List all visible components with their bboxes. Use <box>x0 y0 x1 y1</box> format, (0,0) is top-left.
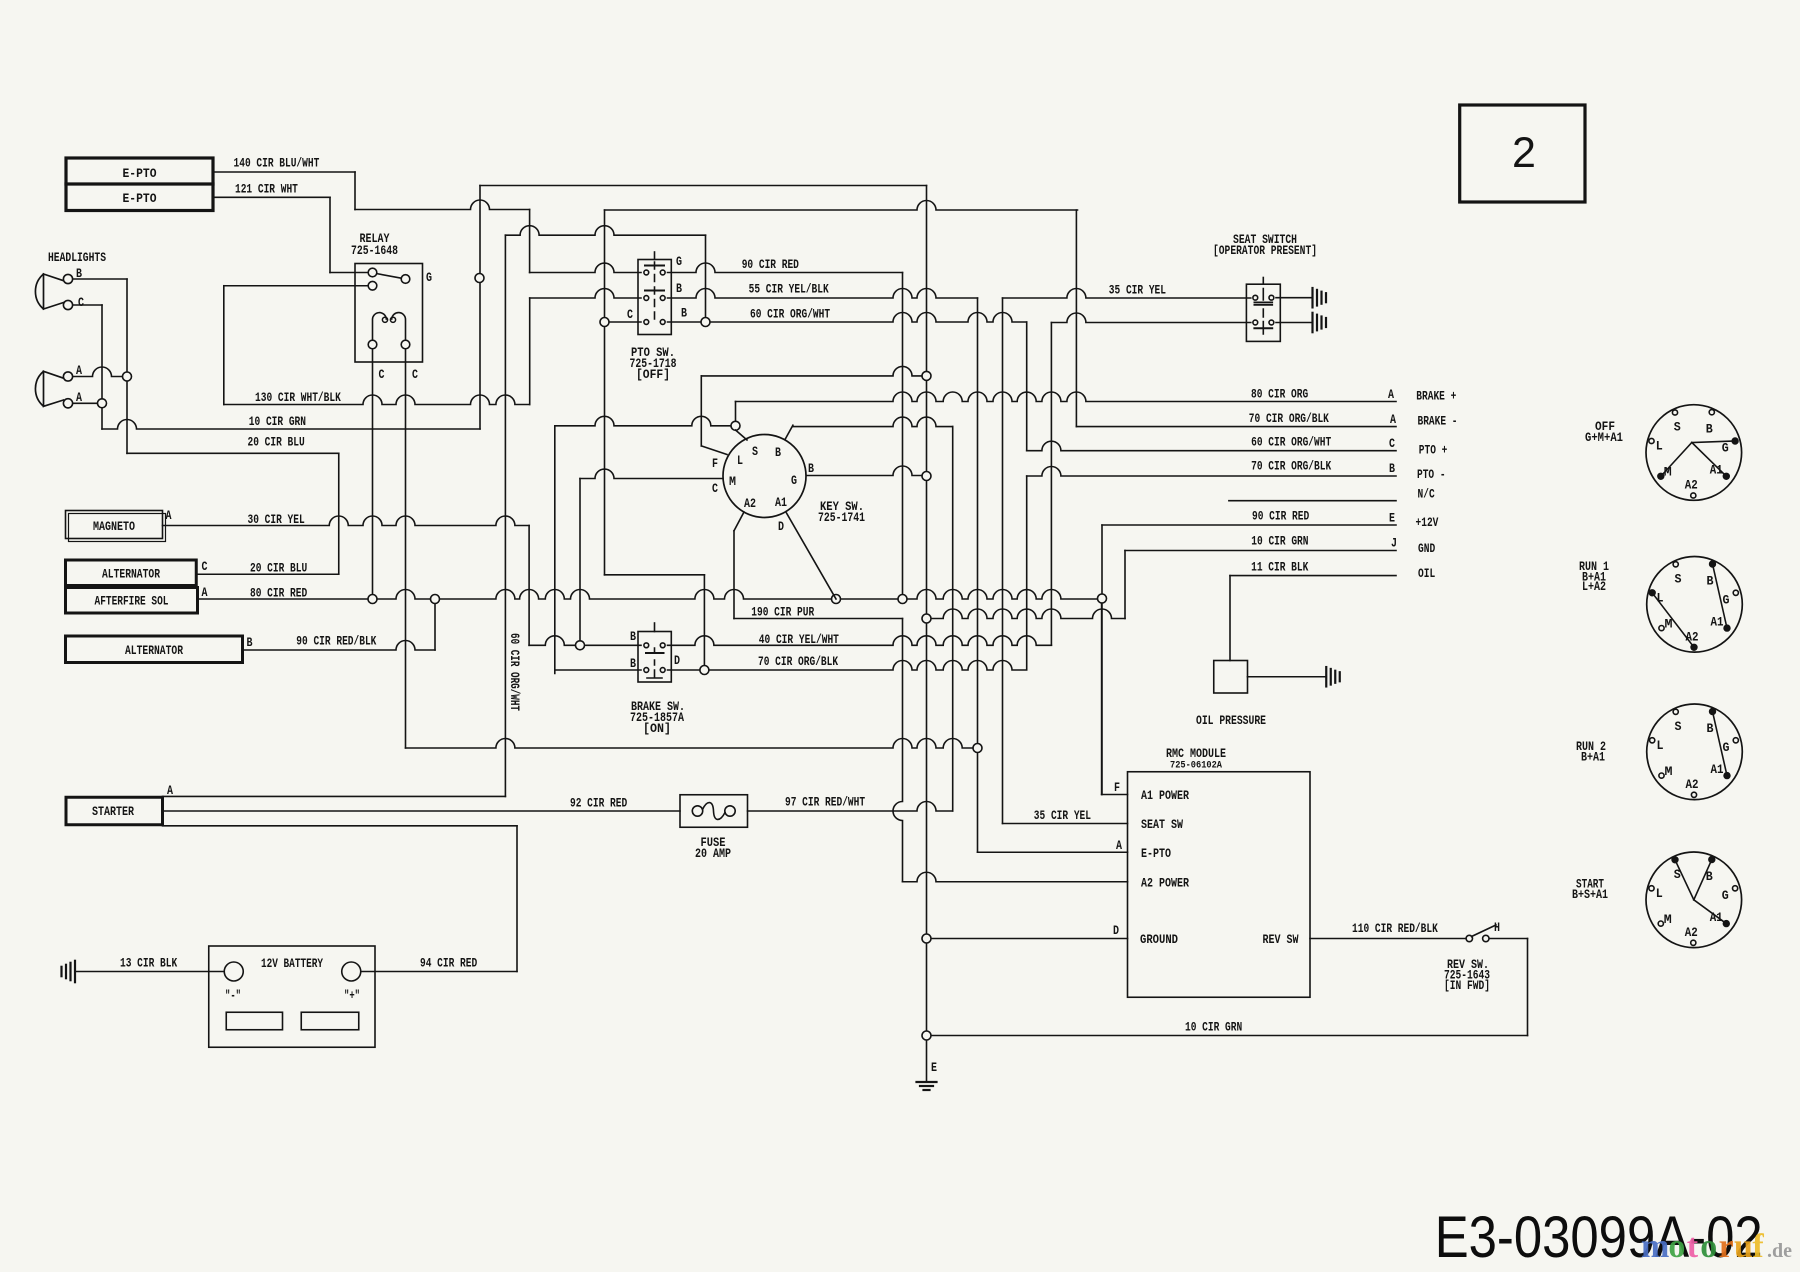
node F-net ground bus <box>922 371 931 380</box>
svg-text:G: G <box>1722 889 1729 903</box>
svg-text:60 CIR ORG/WHT: 60 CIR ORG/WHT <box>1251 436 1331 450</box>
wire 10 CIR GRN headlight <box>102 420 480 430</box>
svg-text:G: G <box>1722 442 1729 456</box>
svg-text:MAGNETO: MAGNETO <box>93 520 135 534</box>
svg-text:40 CIR YEL/WHT: 40 CIR YEL/WHT <box>759 633 839 647</box>
svg-text:ALTERNATOR: ALTERNATOR <box>102 568 160 582</box>
svg-text:BRAKE +: BRAKE + <box>1416 390 1456 404</box>
oil pressure switch <box>1214 661 1248 694</box>
wire 130 CIR WHT/BLK <box>224 395 530 405</box>
afterfire sol box <box>66 588 198 614</box>
ignition position START <box>1646 852 1742 948</box>
battery 12V <box>209 946 375 1047</box>
RMC module box <box>1128 772 1311 998</box>
node GROUND pin bus <box>922 934 931 943</box>
wire A1 POWER pin <box>1102 794 1128 796</box>
magneto box <box>66 511 163 539</box>
svg-text:[OFF]: [OFF] <box>636 368 670 382</box>
svg-text:.de: .de <box>1767 1240 1792 1262</box>
relay 725-1648 <box>355 264 423 363</box>
wire 60 CIR ORG/WHT PTO+ row <box>1026 322 1028 451</box>
svg-text:M: M <box>729 475 736 489</box>
wire PTO row B / 55 CIR YEL/BLK <box>530 289 641 298</box>
node key G ground bus <box>922 472 931 481</box>
wire 35 CIR YEL to seat switch <box>1003 289 1251 299</box>
svg-text:A2: A2 <box>1686 630 1699 644</box>
svg-text:A: A <box>1390 413 1396 427</box>
node headlight B/A <box>123 372 132 381</box>
node 80RED 12V riser <box>1098 594 1107 603</box>
svg-text:REV SW: REV SW <box>1263 933 1299 947</box>
wire key B to 70 CIR ORG/BLK BRAKE- row <box>793 417 953 426</box>
svg-text:C: C <box>202 560 208 574</box>
svg-text:A2 POWER: A2 POWER <box>1141 877 1189 891</box>
svg-text:L: L <box>1656 440 1663 454</box>
wire 20 CIR BLU to alternator <box>196 573 339 575</box>
svg-text:J: J <box>1391 537 1397 551</box>
ignition position OFF <box>1646 405 1742 501</box>
svg-text:D: D <box>778 520 784 534</box>
svg-text:A1: A1 <box>1711 615 1724 629</box>
svg-text:B: B <box>1707 574 1714 588</box>
node relay coil E-PTO net <box>973 744 982 753</box>
relay coil <box>372 313 386 341</box>
svg-text:BRAKE -: BRAKE - <box>1418 415 1458 429</box>
svg-text:B: B <box>681 307 687 321</box>
wire rev sw to bottom return <box>1489 938 1528 940</box>
svg-text:o: o <box>1668 1228 1685 1265</box>
ignition position RUN 2 <box>1647 704 1743 800</box>
svg-text:725-06102A: 725-06102A <box>1170 760 1223 772</box>
wire key C line <box>555 416 736 426</box>
node 80RED 90RED join <box>898 595 907 604</box>
wire 90 CIR RED/BLK from alternator <box>243 641 436 651</box>
wire relay coil to E-PTO net y=748 <box>406 739 978 749</box>
svg-text:70 CIR ORG/BLK: 70 CIR ORG/BLK <box>1249 412 1329 426</box>
svg-text:80 CIR RED: 80 CIR RED <box>250 587 308 601</box>
wire headlight A2 <box>73 402 103 404</box>
svg-text:E: E <box>931 1061 937 1075</box>
alternator box 1 <box>66 560 197 586</box>
svg-text:B+S+A1: B+S+A1 <box>1572 888 1608 902</box>
node 40line M join <box>576 641 585 650</box>
svg-text:PTO +: PTO + <box>1419 444 1448 458</box>
svg-text:A: A <box>167 784 173 798</box>
svg-text:M: M <box>1664 913 1672 927</box>
wire 10 CIR GRN GND row <box>1125 550 1396 552</box>
svg-text:SEAT SW: SEAT SW <box>1141 818 1183 832</box>
wire 90 CIR RED +12V row <box>1102 524 1396 526</box>
svg-text:20 AMP: 20 AMP <box>695 847 731 861</box>
svg-text:F: F <box>1114 781 1120 795</box>
svg-text:C: C <box>412 368 418 382</box>
svg-text:r: r <box>1719 1228 1734 1265</box>
svg-text:[OPERATOR PRESENT]: [OPERATOR PRESENT] <box>1213 244 1317 258</box>
svg-text:f: f <box>1752 1228 1764 1265</box>
seat switch <box>1246 284 1280 341</box>
svg-text:L+A2: L+A2 <box>1582 580 1606 594</box>
wire headlight B <box>73 278 128 280</box>
svg-text:A: A <box>1388 388 1394 402</box>
wire 70 CIR ORG/BLK from brake sw <box>555 669 641 671</box>
svg-text:A1: A1 <box>775 496 787 510</box>
PTO switch 725-1718 <box>638 260 671 335</box>
wire 20 CIR BLU headlight <box>127 452 339 454</box>
svg-text:C: C <box>379 368 385 382</box>
wire 80 CIR RED main <box>198 590 1103 600</box>
svg-text:OIL: OIL <box>1418 567 1435 581</box>
svg-text:A1 POWER: A1 POWER <box>1141 789 1189 803</box>
ignition position RUN 1 <box>1647 557 1743 653</box>
svg-text:OIL PRESSURE: OIL PRESSURE <box>1196 714 1266 728</box>
wire top net y=210 east segment <box>605 201 1078 211</box>
svg-text:121 CIR WHT: 121 CIR WHT <box>235 183 298 197</box>
svg-text:[ON]: [ON] <box>643 722 671 736</box>
svg-text:70 CIR ORG/BLK: 70 CIR ORG/BLK <box>1251 460 1331 474</box>
wire 94 CIR RED battery link <box>163 825 518 827</box>
svg-text:A: A <box>166 509 172 523</box>
svg-text:2: 2 <box>1512 129 1536 177</box>
svg-text:m: m <box>1641 1228 1669 1265</box>
svg-text:90 CIR RED: 90 CIR RED <box>1252 510 1310 524</box>
svg-text:S: S <box>1675 572 1682 586</box>
wire 190PUR south to A2 POWER <box>893 619 903 882</box>
wire F-net horizontal y=376 <box>701 366 926 376</box>
wire A2 POWER pin <box>903 872 1128 882</box>
svg-text:725-1741: 725-1741 <box>818 511 865 525</box>
wire relay lower contact to 130 line <box>224 285 368 287</box>
svg-text:725-1648: 725-1648 <box>351 244 398 258</box>
wire 92 CIR RED starter to fuse <box>163 810 681 812</box>
svg-text:A2: A2 <box>744 497 756 511</box>
wire 10 CIR GRN bottom <box>927 1035 1528 1037</box>
node 80RED altB <box>431 595 440 604</box>
svg-text:G: G <box>676 255 682 269</box>
svg-text:B+A1: B+A1 <box>1581 751 1605 765</box>
svg-text:HEADLIGHTS: HEADLIGHTS <box>48 251 106 265</box>
svg-text:ALTERNATOR: ALTERNATOR <box>125 644 183 658</box>
svg-text:E-PTO: E-PTO <box>123 192 157 206</box>
svg-text:C: C <box>1389 437 1395 451</box>
motoruf watermark <box>1641 1228 1792 1265</box>
node PTO row C left <box>600 318 609 327</box>
svg-text:B: B <box>1707 722 1714 736</box>
svg-text:M: M <box>1665 765 1673 779</box>
wire headlight C <box>73 304 103 306</box>
svg-text:C: C <box>712 482 718 496</box>
svg-text:C: C <box>627 308 633 322</box>
wire key M <box>580 469 723 478</box>
svg-text:70 CIR ORG/BLK: 70 CIR ORG/BLK <box>758 655 838 669</box>
svg-text:u: u <box>1734 1228 1753 1265</box>
svg-text:A: A <box>76 391 82 405</box>
svg-text:20 CIR BLU: 20 CIR BLU <box>248 436 305 450</box>
svg-text:GND: GND <box>1418 542 1436 556</box>
svg-text:B: B <box>76 267 82 281</box>
svg-text:B: B <box>247 636 253 650</box>
wire 60net link to 70 line <box>605 574 705 576</box>
node key C <box>731 421 740 430</box>
node 190PUR ground bus <box>922 614 931 623</box>
wire 110 CIR RED/BLK to rev sw <box>1310 938 1467 940</box>
node 80RED coil-left <box>368 595 377 604</box>
svg-text:G: G <box>1723 741 1730 755</box>
svg-text:E-PTO: E-PTO <box>1141 847 1171 861</box>
svg-text:13 CIR BLK: 13 CIR BLK <box>120 957 178 971</box>
svg-text:190 CIR PUR: 190 CIR PUR <box>751 606 814 620</box>
svg-text:35 CIR YEL: 35 CIR YEL <box>1109 284 1166 298</box>
svg-text:94 CIR RED: 94 CIR RED <box>420 957 478 971</box>
svg-text:B: B <box>1389 462 1395 476</box>
svg-text:A: A <box>76 364 82 378</box>
svg-text:F: F <box>712 457 718 471</box>
svg-text:S: S <box>1675 720 1682 734</box>
svg-text:A2: A2 <box>1685 926 1698 940</box>
ground 13 CIR BLK <box>74 961 76 982</box>
wire 30 CIR YEL from magneto <box>163 516 530 526</box>
svg-text:G+M+A1: G+M+A1 <box>1585 431 1623 445</box>
svg-text:80 CIR ORG: 80 CIR ORG <box>1251 388 1308 402</box>
svg-text:B: B <box>630 630 636 644</box>
svg-text:60 CIR ORG/WHT: 60 CIR ORG/WHT <box>507 633 521 711</box>
svg-text:35 CIR YEL: 35 CIR YEL <box>1034 809 1091 823</box>
svg-text:t: t <box>1687 1228 1699 1265</box>
key switch 725-1741 <box>723 435 806 518</box>
svg-text:10 CIR GRN: 10 CIR GRN <box>1251 535 1308 549</box>
svg-text:B: B <box>808 462 814 476</box>
wire y=235 60ORG/WHT link north <box>505 226 705 236</box>
svg-text:92 CIR RED: 92 CIR RED <box>570 797 628 811</box>
svg-text:130 CIR WHT/BLK: 130 CIR WHT/BLK <box>255 391 341 405</box>
label vertical 60 CIR ORG/WHT <box>507 633 521 711</box>
svg-text:L: L <box>737 454 743 468</box>
svg-text:S: S <box>752 445 758 459</box>
svg-text:20 CIR BLU: 20 CIR BLU <box>250 562 307 576</box>
svg-text:[IN FWD]: [IN FWD] <box>1444 979 1490 993</box>
headlight lamp 2 <box>35 371 63 406</box>
svg-text:B: B <box>676 282 682 296</box>
wire vertical 60 CIR ORG/WHT net x=505 <box>504 235 506 796</box>
wire PTO row G / 90 CIR RED <box>530 263 641 272</box>
brake switch 725-1857A <box>638 632 671 683</box>
svg-text:D: D <box>674 654 680 668</box>
svg-text:12V BATTERY: 12V BATTERY <box>261 957 323 971</box>
alternator box 2 <box>66 636 243 663</box>
node relay G output <box>475 274 484 283</box>
headlight lamp 1 <box>35 274 63 309</box>
ground E bottom <box>917 1081 937 1083</box>
svg-text:+12V: +12V <box>1416 516 1439 530</box>
wire 140 CIR BLU/WHT from E-PTO <box>213 171 355 173</box>
node 70line D join <box>700 666 709 675</box>
svg-text:N/C: N/C <box>1418 488 1436 502</box>
svg-text:S: S <box>1674 421 1681 435</box>
svg-text:97 CIR RED/WHT: 97 CIR RED/WHT <box>785 796 865 810</box>
svg-text:55 CIR YEL/BLK: 55 CIR YEL/BLK <box>749 283 829 297</box>
E-PTO connector boxes <box>66 158 213 211</box>
svg-text:AFTERFIRE SOL: AFTERFIRE SOL <box>95 595 169 609</box>
svg-text:11 CIR BLK: 11 CIR BLK <box>1251 561 1309 575</box>
svg-text:30 CIR YEL: 30 CIR YEL <box>248 513 305 527</box>
svg-text:PTO -: PTO - <box>1417 468 1446 482</box>
node PTO row C right <box>701 318 710 327</box>
svg-text:B: B <box>630 657 636 671</box>
wire GROUND pin <box>927 938 1128 940</box>
svg-text:B: B <box>1706 423 1713 437</box>
svg-text:A2: A2 <box>1685 479 1698 493</box>
svg-text:90 CIR RED: 90 CIR RED <box>742 258 800 272</box>
svg-text:G: G <box>791 474 797 488</box>
svg-text:110 CIR RED/BLK: 110 CIR RED/BLK <box>1352 922 1438 936</box>
svg-text:90 CIR RED/BLK: 90 CIR RED/BLK <box>296 635 376 649</box>
svg-text:G: G <box>1723 593 1730 607</box>
svg-text:L: L <box>1657 739 1664 753</box>
svg-text:A1: A1 <box>1711 763 1724 777</box>
wire starter A north <box>163 795 506 797</box>
svg-text:M: M <box>1665 617 1673 631</box>
wire 11 CIR BLK OIL row <box>1230 575 1396 577</box>
node 80RED key A1 <box>832 595 841 604</box>
svg-text:C: C <box>78 296 84 310</box>
wire 190 CIR PUR east segment to GND row <box>927 609 1126 619</box>
svg-text:L: L <box>1656 887 1663 901</box>
wire PTO row C / 60 CIR ORG/WHT <box>604 210 606 575</box>
svg-text:o: o <box>1700 1228 1717 1265</box>
svg-text:E: E <box>1389 512 1395 526</box>
wire headlight A1 <box>73 367 128 377</box>
svg-text:GROUND: GROUND <box>1140 933 1178 947</box>
starter box <box>66 797 163 825</box>
svg-text:D: D <box>1113 924 1119 938</box>
wire SEAT SW pin <box>1003 823 1128 825</box>
wire E-PTO pin <box>978 851 1128 853</box>
svg-text:"-": "-" <box>225 989 241 1003</box>
svg-text:A: A <box>1116 839 1122 853</box>
wire relay coil left leg <box>372 345 374 600</box>
page number box 2 <box>1460 105 1585 202</box>
svg-text:10 CIR GRN: 10 CIR GRN <box>249 415 306 429</box>
fuse 20 AMP <box>680 795 748 828</box>
svg-text:B: B <box>775 446 781 460</box>
wire 70 CIR ORG/BLK PTO- row <box>1026 476 1028 669</box>
node headlight C/A <box>98 399 107 408</box>
wire 97 CIR RED/WHT fuse east <box>748 802 953 812</box>
svg-text:H: H <box>1494 921 1500 935</box>
wire 140 horizontal run <box>355 200 530 210</box>
svg-text:A: A <box>202 586 208 600</box>
svg-text:A2: A2 <box>1686 778 1699 792</box>
svg-text:10 CIR GRN: 10 CIR GRN <box>1185 1021 1242 1035</box>
svg-text:60 CIR ORG/WHT: 60 CIR ORG/WHT <box>750 308 830 322</box>
svg-text:STARTER: STARTER <box>92 805 134 819</box>
rev switch 725-1643 <box>1466 935 1472 941</box>
wire ground bus top y=185 <box>480 185 927 187</box>
svg-text:G: G <box>426 271 432 285</box>
wire seat switch grounds <box>1276 297 1313 299</box>
wire 190 CIR PUR <box>734 618 903 620</box>
wire 40 CIR YEL/WHT <box>529 636 641 646</box>
wire key G to ground bus <box>807 466 927 476</box>
svg-text:E-PTO: E-PTO <box>123 167 157 181</box>
wire ground bus x=926 <box>926 186 928 1083</box>
wire N/C row <box>1229 500 1396 502</box>
wire 13 CIR BLK ground to battery <box>75 971 225 973</box>
node 10GRN bottom bus <box>922 1031 931 1040</box>
svg-text:"+": "+" <box>344 989 360 1003</box>
wire 80 CIR ORG / BRAKE+ row <box>735 402 737 426</box>
wire seat switch lower row <box>1051 313 1250 323</box>
wire 121 CIR WHT from E-PTO <box>213 196 330 198</box>
svg-text:140 CIR BLU/WHT: 140 CIR BLU/WHT <box>234 157 320 171</box>
